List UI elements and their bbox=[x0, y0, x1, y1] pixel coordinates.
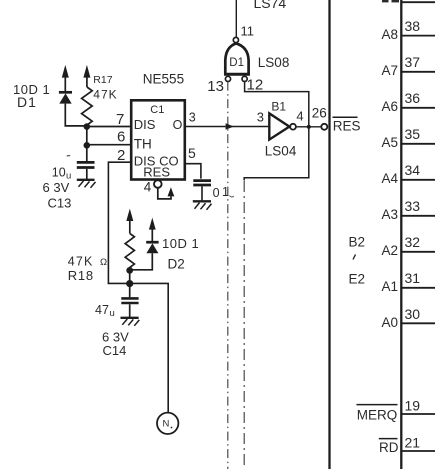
label 10D 1 (D2) bbox=[162, 236, 199, 251]
svg-text:26: 26 bbox=[312, 106, 327, 121]
svg-text:C1: C1 bbox=[150, 104, 164, 116]
svg-text:O: O bbox=[173, 118, 183, 132]
wire inverter output to pin 26 bbox=[296, 126, 321, 128]
inverter B1 (LS04) bbox=[257, 99, 304, 139]
label D1 bbox=[17, 94, 37, 110]
pin RD / 21 bbox=[379, 435, 435, 456]
pin A2 / 32 bbox=[381, 234, 435, 258]
label 47K bbox=[93, 88, 117, 102]
label 47K (R18) bbox=[68, 255, 107, 269]
capacitor C13 10u 6.3V bbox=[67, 156, 95, 180]
svg-text:36: 36 bbox=[405, 90, 421, 106]
label 6.3V (C14) bbox=[102, 330, 129, 345]
svg-text:37: 37 bbox=[405, 54, 421, 70]
wire pin 2 to lower node bbox=[108, 162, 131, 283]
pin 4 terminal circle bbox=[144, 180, 162, 195]
node label E2 bbox=[349, 271, 366, 286]
AND gate D1 (LS08, drawn pointing up) bbox=[224, 43, 250, 74]
label 10u bbox=[52, 166, 71, 182]
svg-text:30: 30 bbox=[405, 306, 421, 322]
svg-text:D2: D2 bbox=[168, 257, 185, 272]
inverter output bubble bbox=[290, 124, 296, 130]
pin A4 / 34 bbox=[381, 162, 435, 186]
svg-text:Ω: Ω bbox=[100, 257, 107, 268]
pin A0 / 30 bbox=[381, 306, 435, 330]
svg-text:13: 13 bbox=[207, 78, 224, 95]
node: pin 6 junction bbox=[84, 142, 132, 149]
diode D2 (10D 1), cathode up bbox=[130, 242, 159, 270]
pin A6 / 36 bbox=[381, 90, 435, 114]
wire node to node below bbox=[86, 127, 88, 146]
pin 13 input circle bbox=[207, 76, 230, 95]
svg-text:C13: C13 bbox=[48, 196, 72, 211]
svg-text:32: 32 bbox=[405, 234, 421, 250]
svg-text:31: 31 bbox=[405, 270, 421, 286]
svg-text:3: 3 bbox=[189, 111, 196, 125]
CPU U2 left edge bbox=[328, 0, 330, 469]
svg-text:LS04: LS04 bbox=[265, 144, 297, 159]
timer NE555 C1 body bbox=[131, 100, 185, 179]
wire pin12 to RES net (down, right, down, left) bbox=[244, 82, 309, 181]
label 47u bbox=[95, 303, 115, 319]
svg-text:10D 1: 10D 1 bbox=[162, 236, 199, 251]
pin 6 label bbox=[117, 129, 125, 146]
svg-text:D1: D1 bbox=[17, 94, 37, 110]
ground for 0.1 cap bbox=[193, 201, 212, 210]
label 10D 1 bbox=[13, 82, 50, 97]
label C14 bbox=[103, 343, 127, 358]
svg-text:LS74: LS74 bbox=[254, 0, 287, 11]
junction: pin12 wire joins RES line bbox=[307, 125, 311, 129]
svg-text:TH: TH bbox=[134, 137, 152, 152]
terminal N circle bbox=[157, 413, 178, 434]
svg-text:11: 11 bbox=[241, 24, 255, 39]
svg-text:LS08: LS08 bbox=[258, 55, 290, 70]
svg-text:47: 47 bbox=[95, 303, 109, 317]
svg-text:RD: RD bbox=[379, 440, 399, 455]
pin A9 stub (pin 39, cut at top) bbox=[382, 0, 435, 2]
svg-text:4: 4 bbox=[296, 108, 303, 123]
wire node to C14 bbox=[129, 284, 131, 298]
svg-text:u: u bbox=[110, 308, 115, 319]
svg-text:47K: 47K bbox=[93, 88, 117, 102]
label R17 bbox=[93, 74, 112, 86]
pin MERQ / 19 bbox=[357, 398, 435, 423]
SECTION: right CPU chip bbox=[330, 0, 435, 469]
svg-text:A4: A4 bbox=[381, 171, 398, 186]
svg-text:A1: A1 bbox=[381, 279, 398, 294]
svg-text:RES: RES bbox=[333, 119, 361, 134]
svg-text:34: 34 bbox=[405, 162, 421, 178]
svg-text:10: 10 bbox=[52, 166, 66, 180]
svg-text:B2: B2 bbox=[349, 234, 366, 249]
label LS04 bbox=[265, 144, 297, 159]
label C13 bbox=[48, 196, 72, 211]
Vcc arrow at pin 4 bbox=[168, 187, 175, 196]
label R18 bbox=[68, 268, 94, 283]
svg-text:DIS: DIS bbox=[134, 117, 156, 132]
signal direction arrow on pin3 wire bbox=[226, 123, 234, 130]
svg-text:RES: RES bbox=[143, 165, 170, 180]
svg-text:6 3V: 6 3V bbox=[43, 180, 70, 195]
Vcc arrow above R17 bbox=[83, 65, 90, 87]
label LS74 (cut at top edge) bbox=[254, 0, 287, 11]
capacitor 0.1 on pin 5 bbox=[193, 181, 234, 201]
pin 11 terminal circle of gate D1 bbox=[233, 24, 254, 43]
svg-text:3: 3 bbox=[257, 110, 264, 125]
SECTION: left passives bbox=[13, 65, 131, 284]
svg-text:1: 1 bbox=[222, 185, 229, 199]
svg-text:A3: A3 bbox=[381, 207, 398, 222]
node: pin2/C14 junction bbox=[126, 280, 133, 287]
pin A8 / 38 bbox=[381, 18, 435, 42]
pin 7 label bbox=[116, 111, 124, 128]
svg-text:5: 5 bbox=[188, 145, 196, 161]
pin 12 input circle bbox=[242, 76, 263, 94]
svg-text:NE555: NE555 bbox=[143, 72, 184, 87]
svg-text:N: N bbox=[163, 419, 170, 430]
pin A1 / 31 bbox=[381, 270, 435, 294]
svg-text:C14: C14 bbox=[103, 343, 127, 358]
pin A5 / 35 bbox=[381, 126, 435, 150]
pin 2 label bbox=[117, 147, 125, 164]
resistor R18 47K zigzag bbox=[125, 233, 134, 269]
wire node to C13 bbox=[86, 145, 88, 161]
svg-text:A8: A8 bbox=[381, 27, 398, 42]
svg-text:19: 19 bbox=[405, 398, 421, 414]
svg-text:33: 33 bbox=[405, 198, 421, 214]
pin A3 / 33 bbox=[381, 198, 435, 222]
svg-text:38: 38 bbox=[405, 18, 421, 34]
wire pin 5 to cap bbox=[185, 164, 201, 179]
svg-text:A5: A5 bbox=[381, 135, 398, 150]
svg-text:A6: A6 bbox=[381, 99, 398, 114]
svg-text:0: 0 bbox=[213, 186, 220, 200]
diode D1 (10D 1), cathode up bbox=[59, 92, 87, 126]
node label B2 bbox=[349, 234, 366, 259]
svg-text:R18: R18 bbox=[68, 268, 94, 283]
net label RES (active-low) at pin 26 bbox=[333, 117, 361, 133]
Vcc arrow above R18 bbox=[126, 209, 133, 234]
SECTION: top gate bbox=[185, 0, 327, 469]
svg-text:47K: 47K bbox=[68, 255, 94, 269]
ground for C13 bbox=[77, 180, 96, 188]
label NE555 bbox=[143, 72, 184, 87]
svg-text:21: 21 bbox=[405, 435, 421, 451]
pin A7 / 37 bbox=[381, 54, 435, 78]
SECTION: mid passives bbox=[68, 209, 200, 434]
svg-text:A2: A2 bbox=[381, 243, 398, 258]
svg-text:A7: A7 bbox=[381, 63, 398, 78]
ground for C14 bbox=[121, 318, 140, 326]
pin 3 label bbox=[189, 111, 196, 125]
svg-text:6: 6 bbox=[117, 129, 125, 146]
wire 555 output pin3 to inverter input bbox=[185, 126, 269, 128]
svg-text:R17: R17 bbox=[93, 74, 112, 86]
label LS08 bbox=[258, 55, 290, 70]
wire pin4 to Vcc arrow bbox=[158, 188, 171, 199]
pin 26 terminal circle bbox=[312, 106, 328, 130]
Vcc arrow above D1 bbox=[62, 65, 69, 92]
wire gate output to LS74 bbox=[235, 0, 237, 37]
node: R18/D2 junction bbox=[126, 267, 133, 284]
CPU U2 right edge bbox=[400, 0, 402, 469]
node: D1/R17 junction to pin 7 bbox=[84, 123, 132, 130]
svg-text:35: 35 bbox=[405, 126, 421, 142]
Vcc arrow above D2 bbox=[149, 218, 156, 242]
wire pin12 continues down (dashed, off page) bbox=[243, 181, 245, 469]
svg-text:MERQ: MERQ bbox=[357, 408, 398, 423]
svg-text:7: 7 bbox=[116, 111, 124, 128]
label D2 bbox=[168, 257, 185, 272]
svg-text:B1: B1 bbox=[271, 99, 286, 113]
wire pin13 going down (dash-dot, off page) bbox=[227, 82, 229, 469]
capacitor C14 47u 6.3V bbox=[121, 298, 138, 317]
svg-text:E2: E2 bbox=[349, 271, 366, 286]
pin 5 label bbox=[188, 145, 196, 161]
svg-text:D1: D1 bbox=[229, 57, 244, 69]
label 6.3V (C13) bbox=[43, 180, 70, 195]
resistor R17 47K zigzag bbox=[82, 87, 93, 130]
SECTION: 555 bbox=[116, 72, 234, 210]
svg-text:A0: A0 bbox=[381, 315, 398, 330]
svg-text:4: 4 bbox=[144, 180, 152, 195]
wire node to N terminal bbox=[130, 283, 169, 412]
